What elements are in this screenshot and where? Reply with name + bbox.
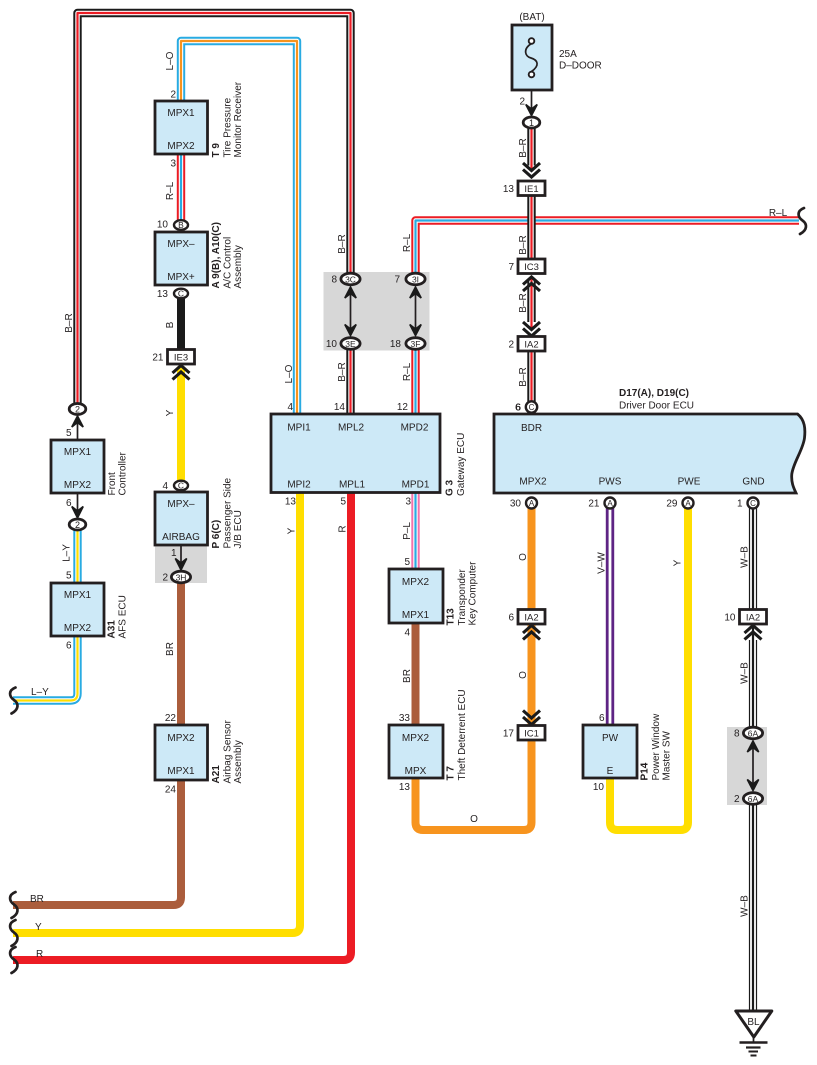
node oval 3I pin 7 xyxy=(394,273,425,285)
wire L-O loop: T9 MPX1 over to gateway MPI1 xyxy=(181,41,297,414)
svg-text:B–R: B–R xyxy=(518,235,529,254)
wire B-R from IA2 to door ECU BDR xyxy=(527,351,535,414)
svg-text:GND: GND xyxy=(742,477,764,488)
svg-text:3: 3 xyxy=(405,497,411,508)
svg-text:Monitor Receiver: Monitor Receiver xyxy=(233,81,244,157)
svg-text:MPD2: MPD2 xyxy=(401,423,429,434)
svg-text:T 9: T 9 xyxy=(211,143,222,158)
wire BR from junction 3H to A21 MPX2 xyxy=(177,577,185,725)
svg-text:24: 24 xyxy=(165,785,177,796)
svg-text:BR: BR xyxy=(165,642,176,656)
svg-text:Gateway ECU: Gateway ECU xyxy=(456,433,467,496)
ECU A21 Airbag Sensor Assembly xyxy=(155,713,244,796)
node oval 3C pin 8 xyxy=(331,273,360,285)
chevron connector arrows below IE3 xyxy=(173,366,190,380)
svg-text:MPX1: MPX1 xyxy=(402,610,430,621)
svg-text:Assembly: Assembly xyxy=(233,245,244,288)
svg-text:R–L: R–L xyxy=(165,181,176,200)
svg-text:Driver Door ECU: Driver Door ECU xyxy=(619,401,694,412)
svg-text:L–O: L–O xyxy=(284,364,295,383)
wire W-B from door ECU GND to connector IA2 xyxy=(749,503,757,623)
wire Y from gateway MPI2 to left edge xyxy=(13,492,300,933)
splice arrows junction 3I-3F xyxy=(410,287,421,336)
svg-text:BR: BR xyxy=(402,669,413,683)
svg-text:2: 2 xyxy=(508,340,514,351)
svg-text:14: 14 xyxy=(334,402,346,413)
ECU A31 AFS ECU xyxy=(51,571,129,652)
connector IA2 pin 6 orange column xyxy=(508,610,545,625)
svg-text:3: 3 xyxy=(170,159,176,170)
svg-text:Assembly: Assembly xyxy=(233,740,244,783)
wire BR from T13 MPX1 to T7 MPX2 xyxy=(412,623,420,725)
chevron connector arrows below IC3 xyxy=(523,277,540,291)
pin line and arrow P6 pin 1 to junction 3H xyxy=(175,545,186,570)
wire L-Y from front controller node 2 to AFS ECU MPX1 xyxy=(73,525,81,584)
svg-text:B–R: B–R xyxy=(518,293,529,312)
node oval A pin 29 at door ECU PWE xyxy=(666,498,693,510)
svg-text:AFS ECU: AFS ECU xyxy=(118,595,129,638)
svg-text:Power Window: Power Window xyxy=(651,713,662,780)
splice arrows junction 3C-3E xyxy=(345,287,356,336)
svg-text:MPX2: MPX2 xyxy=(64,623,92,634)
svg-text:Y: Y xyxy=(35,922,42,933)
svg-text:6A: 6A xyxy=(748,728,759,738)
svg-text:22: 22 xyxy=(165,713,177,724)
svg-text:4: 4 xyxy=(287,402,293,413)
svg-text:A21: A21 xyxy=(211,765,222,784)
svg-text:A31: A31 xyxy=(107,620,118,639)
svg-text:T13: T13 xyxy=(446,608,457,626)
svg-text:3C: 3C xyxy=(345,274,356,284)
fuse 25A D-DOOR xyxy=(512,12,602,108)
svg-text:O: O xyxy=(518,553,529,561)
svg-text:(BAT): (BAT) xyxy=(519,12,544,23)
connector IA2 pin 10 W-B column xyxy=(724,610,766,625)
svg-text:PWE: PWE xyxy=(678,477,701,488)
wire O from door ECU MPX2 down through IA2 and IC1 to T7 MPX xyxy=(416,503,532,830)
ECU P6 Passenger Side J/B xyxy=(155,477,244,559)
wire R-L from junction 3F to gateway MPD2 xyxy=(411,344,419,415)
junction block 3H shading xyxy=(155,546,207,583)
svg-text:R–L: R–L xyxy=(402,362,413,381)
chevron connector arrows above IE1 xyxy=(523,163,540,177)
pin line and arrow fuse pin 2 to node 1 xyxy=(526,90,537,116)
svg-text:5: 5 xyxy=(404,557,410,568)
wire B-R loop: front controller node 2 up over top to junction 3C xyxy=(78,13,351,404)
splice arrows junction 6A xyxy=(747,741,758,791)
svg-text:Tire Pressure: Tire Pressure xyxy=(223,97,234,157)
svg-text:21: 21 xyxy=(588,499,600,510)
node oval 3H pin 2 xyxy=(162,571,190,583)
svg-text:MPX: MPX xyxy=(405,766,427,777)
connector IC3 pin 7 xyxy=(508,259,545,274)
svg-text:Airbag Sensor: Airbag Sensor xyxy=(223,719,234,783)
ECU A9/A10 A/C Control Assembly xyxy=(155,222,244,288)
svg-text:4: 4 xyxy=(162,481,168,492)
svg-text:18: 18 xyxy=(390,339,402,350)
svg-text:7: 7 xyxy=(394,275,400,286)
connector IE3 pin 21 xyxy=(152,350,194,365)
wire BR from A21 MPX1 to left edge xyxy=(13,780,181,905)
chevron connector arrows below IA2 orange column xyxy=(523,626,540,640)
svg-text:B–R: B–R xyxy=(64,313,75,332)
break squiggle L-Y left edge xyxy=(10,688,17,714)
node oval 3F pin 18 xyxy=(390,338,425,350)
svg-text:T 7: T 7 xyxy=(446,766,457,781)
svg-text:O: O xyxy=(470,814,478,825)
wire R-L from T9 MPX2 to A/C node B xyxy=(177,154,185,224)
svg-text:MPI2: MPI2 xyxy=(287,480,311,491)
connector IE1 pin 13 xyxy=(503,181,545,196)
svg-text:MPX2: MPX2 xyxy=(167,733,195,744)
svg-text:A/C Control: A/C Control xyxy=(223,237,234,289)
svg-text:B–R: B–R xyxy=(337,234,348,253)
svg-text:1: 1 xyxy=(737,499,743,510)
svg-text:5: 5 xyxy=(340,497,346,508)
svg-text:BR: BR xyxy=(30,894,44,905)
node oval 2 below front controller xyxy=(69,519,86,530)
svg-text:13: 13 xyxy=(503,184,515,195)
node oval C pin 13 at A/C xyxy=(157,289,188,301)
svg-text:B–R: B–R xyxy=(337,362,348,381)
node oval C pin 4 at P6 xyxy=(162,481,188,493)
chevron connector arrows above IC1 xyxy=(523,711,540,725)
svg-text:L–Y: L–Y xyxy=(62,544,73,562)
junction block 6A shading xyxy=(727,727,767,805)
svg-text:IA2: IA2 xyxy=(524,613,538,624)
svg-text:MPX1: MPX1 xyxy=(167,766,195,777)
svg-text:IE3: IE3 xyxy=(174,353,188,364)
svg-text:R: R xyxy=(338,525,349,532)
svg-text:4: 4 xyxy=(404,628,410,639)
ECU T9 Tire Pressure Monitor Receiver xyxy=(155,81,244,169)
svg-text:10: 10 xyxy=(326,339,338,350)
svg-text:3F: 3F xyxy=(411,339,421,349)
svg-text:1: 1 xyxy=(529,118,534,128)
node oval C pin 6 at door ECU BDR xyxy=(515,401,537,413)
svg-text:A: A xyxy=(529,499,535,508)
svg-text:13: 13 xyxy=(157,289,169,300)
wire B-R from IC3 to connector IA2 xyxy=(527,276,535,329)
svg-text:6: 6 xyxy=(599,713,605,724)
svg-text:MPX–: MPX– xyxy=(167,239,195,250)
connector IA2 pin 2 right column xyxy=(508,337,545,352)
svg-text:O: O xyxy=(518,671,529,679)
svg-text:MPX1: MPX1 xyxy=(64,590,92,601)
svg-text:IC3: IC3 xyxy=(524,262,539,273)
svg-text:MPX2: MPX2 xyxy=(402,733,430,744)
break squiggle R left edge xyxy=(10,947,17,973)
ECU G3 Gateway xyxy=(271,402,467,508)
svg-text:29: 29 xyxy=(666,499,678,510)
svg-text:W–B: W–B xyxy=(740,895,751,917)
svg-text:MPX1: MPX1 xyxy=(167,108,195,119)
svg-text:Transponder: Transponder xyxy=(457,569,468,626)
svg-text:R–L: R–L xyxy=(769,208,788,219)
svg-text:13: 13 xyxy=(399,782,411,793)
break squiggle BR left edge xyxy=(10,892,17,918)
wire L-Y from AFS ECU MPX2 to left edge xyxy=(13,636,78,701)
svg-text:17: 17 xyxy=(503,729,515,740)
svg-text:G 3: G 3 xyxy=(445,479,456,496)
svg-text:3E: 3E xyxy=(345,339,356,349)
svg-text:B–R: B–R xyxy=(518,138,529,157)
svg-text:21: 21 xyxy=(152,353,164,364)
svg-text:V–W: V–W xyxy=(597,552,608,574)
wire B from A/C node C to connector IE3 xyxy=(177,294,185,351)
svg-text:D–DOOR: D–DOOR xyxy=(559,61,602,72)
svg-text:Theft Deterrent ECU: Theft Deterrent ECU xyxy=(457,689,468,780)
svg-text:C: C xyxy=(178,289,184,299)
svg-text:Controller: Controller xyxy=(118,451,129,495)
junction block 3C/3E/3I/3F shading xyxy=(324,272,430,351)
wire B-R from IE1 to connector IC3 xyxy=(527,195,535,259)
wire R-L horizontal from right edge to junction 3I xyxy=(416,221,800,280)
svg-text:13: 13 xyxy=(285,497,297,508)
svg-text:R: R xyxy=(36,949,43,960)
svg-text:IA2: IA2 xyxy=(746,613,760,624)
svg-text:3H: 3H xyxy=(176,572,187,582)
svg-text:MPX–: MPX– xyxy=(167,499,195,510)
svg-text:P–L: P–L xyxy=(402,522,413,540)
ECU D17/D19 Driver Door xyxy=(494,388,805,493)
svg-text:PW: PW xyxy=(602,733,619,744)
svg-text:J/B ECU: J/B ECU xyxy=(233,510,244,548)
wire B-R from junction 3E to gateway MPL2 xyxy=(346,344,354,415)
svg-text:6: 6 xyxy=(66,641,72,652)
svg-text:IE1: IE1 xyxy=(524,184,538,195)
wire P-L from gateway MPD1 to T13 MPX2 xyxy=(411,492,419,569)
svg-text:25A: 25A xyxy=(559,49,577,60)
wire R from gateway MPL1 to left edge xyxy=(13,492,351,960)
chevron connector arrows below IA2 W-B column xyxy=(745,626,762,640)
svg-text:E: E xyxy=(607,766,614,777)
svg-text:P14: P14 xyxy=(640,762,651,780)
svg-text:W–B: W–B xyxy=(740,662,751,684)
svg-text:R–L: R–L xyxy=(402,233,413,252)
svg-text:33: 33 xyxy=(399,713,411,724)
svg-text:1: 1 xyxy=(171,548,177,559)
pin line and arrow front controller pin 5 to node 2 xyxy=(72,416,83,440)
svg-text:5: 5 xyxy=(66,428,72,439)
svg-text:Y: Y xyxy=(673,559,684,566)
svg-text:Front: Front xyxy=(107,472,118,496)
ECU Front Controller xyxy=(51,428,129,509)
node oval A pin 21 at door ECU PWS xyxy=(588,498,615,510)
svg-text:10: 10 xyxy=(593,782,605,793)
svg-text:8: 8 xyxy=(331,275,337,286)
svg-text:10: 10 xyxy=(157,220,169,231)
ECU T13 Transponder Key Computer xyxy=(389,557,479,639)
svg-text:6: 6 xyxy=(508,613,514,624)
pin line and arrow front controller pin 6 to node 2 xyxy=(72,493,83,518)
svg-text:MPX2: MPX2 xyxy=(64,480,92,491)
ECU T7 Theft Deterrent xyxy=(389,689,468,793)
svg-text:L–Y: L–Y xyxy=(31,687,49,698)
svg-text:Y: Y xyxy=(287,527,298,534)
svg-text:B: B xyxy=(165,321,176,328)
svg-text:MPX1: MPX1 xyxy=(64,447,92,458)
wire Y from connector IE3 to P6 node C xyxy=(177,367,185,486)
svg-text:MPL1: MPL1 xyxy=(339,480,366,491)
node oval C pin 1 at door ECU GND xyxy=(737,498,759,510)
wire V-W from door ECU PWS to P14 PW xyxy=(606,503,614,725)
svg-text:C: C xyxy=(529,403,535,412)
svg-text:P 6(C): P 6(C) xyxy=(211,520,222,549)
node oval A pin 30 at door ECU MPX2 xyxy=(510,498,537,510)
svg-text:2: 2 xyxy=(170,90,176,101)
ground BL triangle and earth symbol xyxy=(736,1011,772,1056)
svg-text:Key Computer: Key Computer xyxy=(468,561,479,626)
svg-text:2: 2 xyxy=(75,404,80,414)
svg-text:AIRBAG: AIRBAG xyxy=(162,532,200,543)
connector IC1 pin 17 xyxy=(503,726,545,741)
svg-text:MPI1: MPI1 xyxy=(287,423,311,434)
wire W-B from junction 6A to ground BL xyxy=(749,801,757,1012)
node oval 1 below fuse xyxy=(523,117,540,128)
svg-text:MPX+: MPX+ xyxy=(167,272,195,283)
svg-text:PWS: PWS xyxy=(599,477,622,488)
svg-text:Master SW: Master SW xyxy=(662,730,673,780)
svg-text:A: A xyxy=(685,499,691,508)
wire B-R from fuse node 1 to connector IE1 xyxy=(527,123,535,171)
svg-text:A: A xyxy=(607,499,613,508)
chevron connector arrows above IA2 right column xyxy=(523,322,540,336)
node oval 6A pin 8 xyxy=(734,727,763,739)
svg-text:W–B: W–B xyxy=(740,546,751,568)
node oval 2 above front controller xyxy=(69,404,86,415)
break squiggle R-L right edge xyxy=(799,208,806,234)
node oval 6A pin 2 xyxy=(734,793,763,805)
svg-text:L–O: L–O xyxy=(165,51,176,70)
svg-text:8: 8 xyxy=(734,729,740,740)
svg-text:30: 30 xyxy=(510,499,522,510)
svg-text:MPX2: MPX2 xyxy=(519,477,547,488)
svg-text:MPL2: MPL2 xyxy=(338,423,365,434)
svg-text:10: 10 xyxy=(724,613,736,624)
svg-text:C: C xyxy=(750,499,756,508)
svg-text:BL: BL xyxy=(747,1017,760,1028)
svg-text:D17(A), D19(C): D17(A), D19(C) xyxy=(619,388,689,399)
svg-text:6: 6 xyxy=(515,403,521,414)
svg-text:Passenger Side: Passenger Side xyxy=(223,477,234,548)
svg-text:IA2: IA2 xyxy=(524,340,538,351)
svg-text:12: 12 xyxy=(397,402,409,413)
svg-text:C: C xyxy=(178,481,184,491)
svg-text:2: 2 xyxy=(75,520,80,530)
svg-text:6: 6 xyxy=(66,498,72,509)
SW P14 Power Window Master xyxy=(583,713,673,793)
svg-text:2: 2 xyxy=(519,97,525,108)
svg-text:MPX2: MPX2 xyxy=(402,577,430,588)
svg-text:3I: 3I xyxy=(412,274,419,284)
node oval B pin 10 at A/C xyxy=(157,220,188,231)
svg-text:7: 7 xyxy=(508,262,514,273)
svg-text:MPX2: MPX2 xyxy=(167,141,195,152)
svg-text:2: 2 xyxy=(162,573,168,584)
node oval 3E pin 10 xyxy=(326,338,360,350)
svg-text:A 9(B), A10(C): A 9(B), A10(C) xyxy=(211,222,222,288)
svg-text:BDR: BDR xyxy=(521,423,542,434)
svg-text:Y: Y xyxy=(165,409,176,416)
svg-text:6A: 6A xyxy=(748,794,759,804)
svg-text:B: B xyxy=(178,220,184,230)
svg-text:B–R: B–R xyxy=(518,367,529,386)
wire W-B from IA2 to junction 6A xyxy=(749,624,757,730)
break squiggle Y left edge xyxy=(10,920,17,946)
svg-text:2: 2 xyxy=(734,794,740,805)
svg-text:MPD1: MPD1 xyxy=(402,480,430,491)
svg-text:IC1: IC1 xyxy=(524,729,539,740)
wire Y from door ECU PWE to P14 E xyxy=(610,503,688,830)
svg-text:5: 5 xyxy=(66,571,72,582)
